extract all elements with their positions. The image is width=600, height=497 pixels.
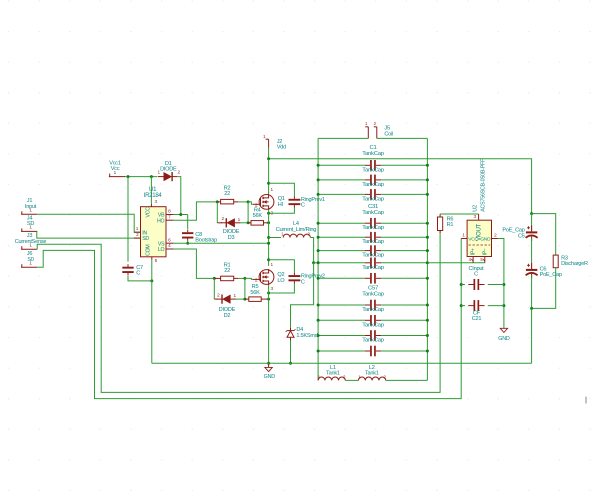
svg-text:Vcc: Vcc [111,166,120,172]
svg-text:2: 2 [177,170,180,175]
svg-text:SD: SD [142,236,149,242]
svg-text:U2: U2 [472,205,478,212]
svg-text:2: 2 [217,292,220,297]
svg-text:1: 1 [233,293,236,298]
svg-text:2: 2 [136,232,139,237]
svg-text:R1: R1 [447,222,454,228]
svg-text:IR2184: IR2184 [144,193,163,199]
svg-text:1.5KSmd: 1.5KSmd [296,333,317,339]
svg-text:C5: C5 [518,234,525,240]
svg-text:TankCap: TankCap [362,196,384,202]
svg-text:Input: Input [25,204,37,210]
svg-text:Current_Lim/Ring: Current_Lim/Ring [276,227,317,233]
svg-text:3: 3 [474,214,477,219]
svg-text:Coil: Coil [384,132,393,138]
svg-text:TankCap: TankCap [362,182,384,188]
svg-text:1: 1 [271,187,274,192]
svg-text:TankCap: TankCap [362,253,384,259]
svg-text:C1: C1 [369,145,376,151]
svg-text:TankCap: TankCap [362,322,384,328]
svg-text:2: 2 [494,232,497,237]
svg-text:S0: S0 [27,257,33,263]
svg-text:D2: D2 [224,313,231,319]
svg-text:C21: C21 [472,316,482,322]
svg-text:1: 1 [271,262,274,267]
svg-text:Tank1: Tank1 [365,371,379,377]
svg-text:DIODE: DIODE [160,167,177,173]
svg-text:3: 3 [154,199,157,204]
svg-text:Tank1: Tank1 [326,371,340,377]
svg-text:GND: GND [498,336,510,342]
svg-text:C: C [301,203,305,209]
svg-text:7: 7 [168,214,171,219]
svg-text:HI: HI [278,202,284,208]
svg-text:COM: COM [146,245,152,256]
svg-text:TankCap: TankCap [362,291,384,297]
svg-text:C: C [136,271,140,277]
svg-text:4: 4 [469,257,472,262]
svg-text:5: 5 [480,257,483,262]
svg-text:TankCap: TankCap [362,151,384,157]
svg-text:VCC: VCC [146,207,152,218]
svg-text:Vdd: Vdd [277,145,286,151]
svg-text:C: C [301,279,305,285]
svg-text:LO: LO [277,278,285,284]
svg-text:C: C [474,272,478,278]
svg-text:1: 1 [136,226,139,231]
svg-text:D3: D3 [228,235,235,241]
svg-text:PoE_Cap: PoE_Cap [540,272,562,278]
svg-text:DischargeR: DischargeR [561,261,588,267]
svg-text:IP−: IP− [483,248,489,255]
svg-text:2: 2 [221,216,224,221]
svg-text:56K: 56K [250,290,260,296]
svg-text:TankCap: TankCap [362,265,384,271]
svg-text:TankCap: TankCap [362,239,384,245]
svg-text:GND: GND [264,374,276,380]
svg-text:4: 4 [168,243,171,248]
svg-text:3: 3 [271,286,274,291]
svg-text:1: 1 [462,232,465,237]
svg-text:2: 2 [384,375,387,380]
svg-text:5: 5 [155,258,158,263]
svg-text:1: 1 [238,217,241,222]
svg-text:LO: LO [158,247,165,253]
svg-text:TankCap: TankCap [362,210,384,216]
svg-text:2: 2 [343,375,346,380]
svg-text:22: 22 [224,268,230,274]
svg-text:VCC: VCC [468,237,478,243]
svg-text:8: 8 [168,209,171,214]
svg-text:56K: 56K [253,213,263,219]
svg-text:IP+: IP+ [470,248,476,255]
svg-text:TankCap: TankCap [362,225,384,231]
svg-text:6: 6 [168,237,171,242]
svg-text:GND: GND [480,237,491,243]
svg-text:TankCap: TankCap [362,307,384,313]
svg-text:TankCap: TankCap [362,167,384,173]
svg-text:HO: HO [157,218,164,224]
svg-text:1: 1 [263,134,266,139]
svg-text:1: 1 [365,121,368,126]
svg-text:SD: SD [27,221,34,227]
svg-text:TankCap: TankCap [362,338,384,344]
svg-text:22: 22 [224,191,230,197]
svg-text:ACS756SCB-050B-PFF: ACS756SCB-050B-PFF [480,158,486,212]
